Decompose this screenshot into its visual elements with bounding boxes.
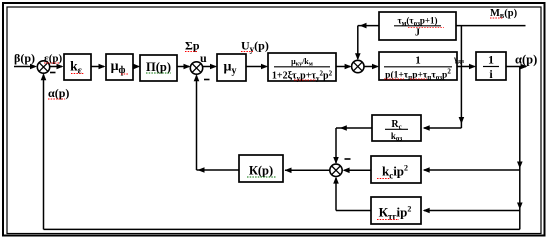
block Ktg ip^2 <box>371 197 421 224</box>
wire summer 3 to motor block <box>364 64 379 70</box>
node Sigma p label <box>185 39 200 53</box>
block P(p) <box>140 55 177 81</box>
node epsilon(p) label <box>44 53 62 65</box>
summing junction S2 <box>190 62 202 74</box>
wire servo block to summer 3 <box>336 64 352 70</box>
summing junction S3 <box>352 60 364 72</box>
block mu_f <box>106 54 133 80</box>
svg-text:К(р): К(р) <box>249 164 273 178</box>
summing junction S1 <box>37 61 49 73</box>
minus sign at summer 1 <box>50 72 56 74</box>
wire summer 2 to mu_u <box>203 64 217 70</box>
svg-text:J: J <box>415 28 420 39</box>
svg-text:Σр: Σр <box>185 39 200 53</box>
node alpha(p) output label <box>515 53 537 67</box>
svg-text:u: u <box>200 51 207 65</box>
wire 1/i to alpha(p) output <box>506 64 528 70</box>
block kc ip^2 <box>371 156 421 183</box>
wire bottom feedback to summer 1 <box>41 73 520 229</box>
wire feedback right vertical <box>517 67 523 230</box>
wire M_v input to tau_m block <box>456 25 525 27</box>
wire ke to mu_f <box>91 64 106 70</box>
wire mu_f to P(p) <box>133 64 140 70</box>
wire branch to kc block <box>423 167 520 173</box>
wire P(p) to summer 2 <box>177 64 191 70</box>
wire motor block to block 1/i <box>457 64 476 70</box>
wire summer 4 to K(p) block <box>285 168 330 174</box>
wire Ktg block to summer 4 <box>333 177 371 211</box>
svg-text:1: 1 <box>415 55 421 67</box>
node U_u(p) label <box>241 39 269 55</box>
node u label <box>200 51 207 65</box>
summing junction S4 <box>330 164 342 176</box>
wire branch to Ktg block <box>423 208 520 214</box>
wire Rc block to summer 4 <box>333 125 372 164</box>
node beta(p) input label <box>14 51 35 65</box>
block disturbance tau_m <box>379 12 456 40</box>
block Rc over k_oz <box>372 115 421 143</box>
block motor transfer function <box>379 52 457 82</box>
minus sign at summer 4 <box>345 158 351 160</box>
svg-text:1: 1 <box>488 53 494 67</box>
minus sign at summer 2 <box>204 79 210 81</box>
node alpha(p) feedback label <box>48 86 69 100</box>
svg-text:П(р): П(р) <box>146 60 171 74</box>
block K(p) <box>239 155 283 182</box>
svg-text:β(р): β(р) <box>14 51 35 65</box>
block 1/i <box>476 52 506 81</box>
wire vertical tap to Rc block <box>423 26 465 131</box>
wire K(p) to summer 2 <box>194 74 239 173</box>
wire mu_u to servo block <box>246 64 268 70</box>
node M_v(p) label <box>490 8 518 20</box>
svg-text:1+2ξτуp+τу2p2: 1+2ξτуp+τу2p2 <box>272 70 333 83</box>
wire summer 1 to block ke <box>50 64 64 70</box>
block servo transfer function <box>268 53 336 83</box>
wire beta input to summer 1 <box>14 64 37 70</box>
node gamma_dv label <box>453 55 465 66</box>
block mu_u <box>217 54 246 81</box>
svg-text:α(р): α(р) <box>515 53 537 67</box>
wire tau_m block output to summer 3 <box>355 23 379 61</box>
svg-text:α(р): α(р) <box>48 86 69 100</box>
block ke <box>64 54 91 80</box>
wire kc block to summer 4 <box>343 168 371 174</box>
